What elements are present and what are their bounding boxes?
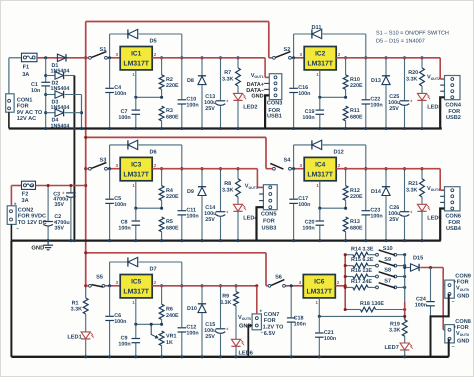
svg-text:220E: 220E xyxy=(166,83,179,89)
svg-text:LM317T: LM317T xyxy=(123,289,149,296)
svg-text:GND: GND xyxy=(31,245,44,252)
svg-text:35V: 35V xyxy=(54,202,64,208)
wire ladder bus xyxy=(404,255,406,302)
svg-text:+: + xyxy=(14,202,17,208)
svg-text:3.3K: 3.3K xyxy=(389,328,400,334)
capacitor C15 xyxy=(220,286,222,357)
svg-text:3.3K: 3.3K xyxy=(406,76,417,82)
resistor R20 xyxy=(421,58,423,68)
svg-text:1.2V TO: 1.2V TO xyxy=(263,325,284,331)
svg-text:S6: S6 xyxy=(275,275,282,281)
resistor R14 xyxy=(345,254,353,256)
svg-text:GND: GND xyxy=(251,94,263,100)
svg-text:D13: D13 xyxy=(371,78,381,84)
svg-text:220E: 220E xyxy=(350,194,363,200)
wire IC1 output rail xyxy=(152,57,265,59)
wire F2 out xyxy=(36,185,86,187)
capacitor C21 xyxy=(318,316,320,356)
resistor R7 xyxy=(237,58,239,68)
resistor R4 xyxy=(161,169,163,186)
wire ground rail row2 xyxy=(11,240,440,242)
connector CON5 xyxy=(263,185,277,210)
wire IC6 adj xyxy=(318,298,320,317)
svg-text:S5: S5 xyxy=(96,275,103,281)
wire IC2 output rail xyxy=(336,57,440,59)
svg-text:R14 3.3E: R14 3.3E xyxy=(351,246,374,252)
wire CON1 to fuse xyxy=(8,58,10,94)
diode D4 xyxy=(46,112,55,114)
svg-text:1K: 1K xyxy=(166,340,173,346)
svg-text:6.5V: 6.5V xyxy=(264,331,276,337)
wire xyxy=(107,168,120,170)
diode D10 xyxy=(201,286,203,304)
diode D1 xyxy=(57,54,66,61)
svg-text:S2: S2 xyxy=(283,47,290,53)
svg-text:100n: 100n xyxy=(302,115,314,121)
wire xyxy=(285,285,303,287)
resistor R8 xyxy=(237,169,239,179)
capacitor C12 xyxy=(181,286,183,357)
svg-text:FOR: FOR xyxy=(448,220,460,226)
connector CON4 xyxy=(445,76,461,100)
wire D2 cathode down xyxy=(73,76,75,241)
wire CON8 gnd xyxy=(448,339,450,357)
svg-text:100n: 100n xyxy=(370,103,382,109)
LED LED3 xyxy=(421,86,423,93)
diode D14 xyxy=(385,169,387,187)
potentiometer VR1 xyxy=(159,331,164,346)
svg-text:R21: R21 xyxy=(408,181,418,187)
wire IC6 out to ladder bus xyxy=(335,285,345,287)
svg-text:LM317T: LM317T xyxy=(307,172,333,179)
svg-text:R10: R10 xyxy=(350,77,360,83)
svg-text:FOR: FOR xyxy=(448,109,460,115)
wire D3 cathode down xyxy=(81,95,83,129)
svg-text:100n: 100n xyxy=(298,202,310,208)
capacitor C8 xyxy=(135,208,137,240)
switch S5 xyxy=(89,284,92,287)
capacitor C2 xyxy=(47,186,49,222)
resistor R18 xyxy=(345,309,360,311)
svg-text:680E: 680E xyxy=(350,225,363,231)
svg-text:LM317T: LM317T xyxy=(123,61,149,68)
svg-text:S3: S3 xyxy=(99,158,106,164)
svg-text:R5: R5 xyxy=(166,219,173,225)
svg-text:IC2: IC2 xyxy=(315,51,326,58)
wire CON9 gnd xyxy=(431,294,449,357)
svg-text:CON6: CON6 xyxy=(445,214,461,220)
switch S3 xyxy=(89,167,92,170)
svg-text:100n: 100n xyxy=(415,303,427,309)
capacitor C26 xyxy=(404,169,406,241)
svg-text:LED7: LED7 xyxy=(385,345,399,351)
svg-text:+: + xyxy=(226,99,229,104)
svg-text:D14: D14 xyxy=(371,189,381,195)
wire stub S6 xyxy=(266,285,268,287)
svg-text:680E: 680E xyxy=(350,114,363,120)
svg-text:LM317T: LM317T xyxy=(123,172,149,179)
wire row2 feed rail xyxy=(86,136,266,138)
svg-text:100n: 100n xyxy=(114,91,126,97)
wire adj xyxy=(345,200,347,208)
resistor R1 xyxy=(83,298,88,314)
switch S9 xyxy=(368,265,376,267)
op-amp/regulator IC6 xyxy=(303,275,335,298)
svg-text:680E: 680E xyxy=(166,225,179,231)
resistor R5 xyxy=(159,217,164,232)
svg-text:D11: D11 xyxy=(312,25,322,31)
svg-text:CON2: CON2 xyxy=(18,207,34,213)
wire D15 to CON9 xyxy=(420,267,443,269)
svg-text:CON7: CON7 xyxy=(264,312,280,318)
svg-text:D15: D15 xyxy=(413,255,423,261)
svg-text:100n: 100n xyxy=(114,202,126,208)
svg-text:VR1: VR1 xyxy=(166,334,177,340)
svg-text:R15 6.2E: R15 6.2E xyxy=(351,257,374,263)
capacitor C9 xyxy=(135,324,137,357)
svg-text:100n: 100n xyxy=(298,91,310,97)
wire main positive bus xyxy=(85,22,87,286)
capacitor C6 xyxy=(109,286,111,357)
op-amp/regulator IC3 xyxy=(120,157,152,180)
switch S1 xyxy=(89,56,92,59)
wire IC4 output rail xyxy=(336,168,440,170)
svg-text:S1: S1 xyxy=(99,47,106,53)
svg-text:100n: 100n xyxy=(302,226,314,232)
LED LED7 xyxy=(404,336,406,343)
svg-text:R6: R6 xyxy=(166,307,173,313)
resistor R21 xyxy=(421,169,423,179)
resistor R2 xyxy=(161,58,163,75)
svg-text:CON1: CON1 xyxy=(17,97,33,103)
svg-text:R4: R4 xyxy=(166,188,173,194)
svg-text:R17 24E: R17 24E xyxy=(351,279,372,285)
wire xyxy=(107,57,120,59)
switch S2 xyxy=(273,56,276,59)
svg-text:100n: 100n xyxy=(118,115,130,121)
svg-text:1N5404: 1N5404 xyxy=(51,123,70,129)
wire CON6 stubs xyxy=(440,195,444,197)
capacitor C4 xyxy=(109,58,111,129)
svg-text:F1: F1 xyxy=(23,65,30,71)
svg-text:100n: 100n xyxy=(186,331,198,337)
node DATA+ xyxy=(264,82,269,84)
LED LED5 xyxy=(421,197,423,204)
wire row3 feed rail xyxy=(86,252,266,254)
svg-text:CON4: CON4 xyxy=(445,103,461,109)
capacitor C10 xyxy=(181,58,183,129)
svg-text:GND: GND xyxy=(457,339,469,345)
LED LED4 xyxy=(237,197,239,204)
svg-text:R1: R1 xyxy=(72,300,79,306)
svg-text:CON3: CON3 xyxy=(267,100,283,106)
op-amp/regulator IC1 xyxy=(120,47,152,70)
svg-text:240E: 240E xyxy=(166,313,179,319)
svg-text:D8: D8 xyxy=(187,78,194,84)
svg-text:100n: 100n xyxy=(186,103,198,109)
svg-text:S7: S7 xyxy=(384,279,391,285)
wire IC5 output rail xyxy=(152,285,257,287)
svg-text:–: – xyxy=(452,344,455,350)
wire top positive rail xyxy=(86,21,269,23)
svg-text:FOR: FOR xyxy=(263,218,275,224)
diode D3 xyxy=(46,94,55,96)
svg-text:LM317T: LM317T xyxy=(306,289,332,296)
svg-text:25V: 25V xyxy=(205,106,215,112)
svg-text:LED2: LED2 xyxy=(243,105,257,111)
svg-text:D6: D6 xyxy=(150,150,157,156)
resistor R19 xyxy=(402,320,407,336)
diode D2 xyxy=(46,75,55,77)
wire CON4 stubs xyxy=(440,84,444,86)
svg-text:R11: R11 xyxy=(350,108,360,114)
svg-text:C1: C1 xyxy=(31,82,38,88)
svg-text:3.3K: 3.3K xyxy=(222,76,233,82)
capacitor C1 xyxy=(41,81,50,83)
fuse F1 xyxy=(22,53,38,62)
resistor R12 xyxy=(345,169,347,186)
wire CON5 stubs xyxy=(259,193,263,195)
svg-text:R8: R8 xyxy=(224,181,231,187)
node DATA- xyxy=(264,88,269,90)
switch S7 xyxy=(368,286,376,288)
svg-text:D5: D5 xyxy=(150,39,157,45)
svg-text:+: + xyxy=(410,210,413,215)
svg-text:220E: 220E xyxy=(166,194,179,200)
connector CON9 xyxy=(445,280,455,298)
svg-text:S1 – S10 = ON/OFF SWITCH: S1 – S10 = ON/OFF SWITCH xyxy=(376,31,449,37)
svg-text:R16 13E: R16 13E xyxy=(351,268,372,274)
svg-text:25V: 25V xyxy=(389,217,399,223)
diode D6 xyxy=(109,145,111,169)
wire ground rail row1 xyxy=(9,127,442,129)
svg-text:25V: 25V xyxy=(389,106,399,112)
svg-text:S8: S8 xyxy=(384,268,391,274)
svg-text:R18 130E: R18 130E xyxy=(360,301,384,307)
capacitor C14 xyxy=(220,169,222,241)
wire IC3 output rail xyxy=(152,168,257,170)
svg-text:S4: S4 xyxy=(283,158,291,164)
svg-text:100n: 100n xyxy=(118,341,130,347)
svg-text:R3: R3 xyxy=(166,108,173,114)
connector CON3 xyxy=(269,74,282,100)
svg-text:R20: R20 xyxy=(408,70,418,76)
svg-text:3A: 3A xyxy=(22,72,29,78)
wire CON2 minus xyxy=(10,224,12,240)
resistor R6 xyxy=(161,286,163,304)
svg-text:9V AC TO: 9V AC TO xyxy=(17,110,43,116)
svg-text:R13: R13 xyxy=(350,219,360,225)
svg-text:35V: 35V xyxy=(54,226,64,232)
wire left return xyxy=(10,241,12,357)
wire bus tail xyxy=(85,286,87,298)
wire CON6 gnd xyxy=(440,209,444,241)
wire stub S3 xyxy=(86,168,89,170)
svg-text:100n: 100n xyxy=(186,214,198,220)
capacitor C19 xyxy=(319,97,321,128)
svg-text:LED1: LED1 xyxy=(67,334,81,340)
svg-text:1N5404: 1N5404 xyxy=(51,86,70,92)
switch S8 xyxy=(368,276,376,278)
svg-text:D5 – D15 = 1N4007: D5 – D15 = 1N4007 xyxy=(376,39,425,45)
resistor R3 xyxy=(159,106,164,121)
svg-text:680E: 680E xyxy=(166,114,179,120)
svg-text:D12: D12 xyxy=(334,150,344,156)
svg-text:3A: 3A xyxy=(22,198,29,204)
svg-text:USB2: USB2 xyxy=(446,115,461,121)
svg-text:LED6: LED6 xyxy=(239,351,253,357)
diode D13 xyxy=(385,58,387,76)
LED LED6 xyxy=(235,306,237,339)
wire stub S1 xyxy=(86,57,89,59)
svg-text:R19: R19 xyxy=(390,321,400,327)
wire xyxy=(291,168,304,170)
svg-text:220E: 220E xyxy=(350,83,363,89)
svg-text:1N5404: 1N5404 xyxy=(51,105,70,111)
connector CON8 xyxy=(445,325,455,343)
wire adj xyxy=(161,200,163,208)
wire bridge left bus xyxy=(45,58,47,83)
LED LED2 xyxy=(237,86,239,93)
svg-text:100n: 100n xyxy=(324,336,336,342)
svg-text:100n: 100n xyxy=(118,226,130,232)
svg-text:IC4: IC4 xyxy=(315,162,326,169)
wire CON4 gnd xyxy=(440,97,444,128)
wire CON2 plus xyxy=(10,186,12,206)
svg-text:3.3K: 3.3K xyxy=(71,307,82,313)
svg-text:100n: 100n xyxy=(370,214,382,220)
svg-text:R12: R12 xyxy=(350,188,360,194)
svg-text:12V AC: 12V AC xyxy=(17,116,36,122)
capacitor C5 xyxy=(109,169,111,241)
wire stub S2 xyxy=(269,57,273,59)
svg-text:+: + xyxy=(410,99,413,104)
svg-text:USB4: USB4 xyxy=(446,226,462,232)
resistor R10 xyxy=(345,58,347,75)
svg-text:+: + xyxy=(226,327,229,332)
svg-text:S10: S10 xyxy=(383,246,393,252)
capacitor C16 xyxy=(293,58,295,129)
svg-text:USB3: USB3 xyxy=(262,225,277,231)
connector CON6 xyxy=(445,187,461,211)
svg-text:R7: R7 xyxy=(224,70,231,76)
svg-text:IC1: IC1 xyxy=(131,51,142,58)
svg-text:LM317T: LM317T xyxy=(307,61,333,68)
svg-text:IC6: IC6 xyxy=(314,279,325,286)
svg-text:S9: S9 xyxy=(384,257,391,263)
svg-text:10n: 10n xyxy=(31,88,40,94)
svg-text:D9: D9 xyxy=(187,189,194,195)
diode D15 xyxy=(405,267,411,269)
diode D7 xyxy=(109,262,111,286)
svg-text:FOR: FOR xyxy=(17,104,29,110)
LED LED1 xyxy=(85,314,87,332)
resistor R9 xyxy=(235,286,237,292)
wire fuse out xyxy=(37,57,86,59)
svg-text:+: + xyxy=(226,210,229,215)
svg-text:R9: R9 xyxy=(222,294,229,300)
svg-text:3.3K: 3.3K xyxy=(220,300,231,306)
svg-text:–: – xyxy=(452,299,455,305)
svg-text:D10: D10 xyxy=(187,306,197,312)
svg-text:+: + xyxy=(62,191,65,196)
wire CON5 gnd xyxy=(257,207,264,240)
op-amp/regulator IC4 xyxy=(304,157,336,180)
svg-text:3.3K: 3.3K xyxy=(406,187,417,193)
capacitor C25 xyxy=(404,58,406,129)
wire adj xyxy=(345,89,347,97)
capacitor C22 xyxy=(365,58,367,129)
diode D5 xyxy=(109,34,111,58)
op-amp/regulator IC2 xyxy=(304,47,336,70)
diode D8 xyxy=(201,58,203,76)
capacitor C7 xyxy=(135,97,137,128)
svg-text:+: + xyxy=(259,309,262,315)
capacitor C23 xyxy=(365,169,367,241)
diode D12 xyxy=(293,145,295,169)
diode D11 xyxy=(293,34,295,58)
svg-text:USB1: USB1 xyxy=(267,114,282,120)
fuse F2 xyxy=(11,185,21,187)
capacitor C18 xyxy=(290,286,292,357)
connector CON2 xyxy=(7,206,16,225)
connector CON1 xyxy=(6,94,14,112)
svg-text:GND: GND xyxy=(457,294,469,300)
wire ground rail row3 xyxy=(11,356,448,358)
resistor R16 xyxy=(345,276,353,278)
svg-text:100n: 100n xyxy=(294,321,306,327)
op-amp/regulator IC5 xyxy=(120,275,152,298)
resistor R17 xyxy=(345,286,353,288)
wire CON1 return xyxy=(8,112,10,128)
wire CON7 gnd xyxy=(248,326,252,357)
svg-text:IC3: IC3 xyxy=(131,162,142,169)
wire stub S4 xyxy=(266,168,273,170)
svg-text:–: – xyxy=(16,226,19,232)
wire adj xyxy=(161,89,163,97)
svg-text:R2: R2 xyxy=(166,77,173,83)
svg-text:F2: F2 xyxy=(22,191,29,197)
resistor R11 xyxy=(343,106,348,121)
switch S10 xyxy=(368,254,376,256)
capacitor C17 xyxy=(293,169,295,241)
wire xyxy=(105,285,120,287)
svg-text:IC5: IC5 xyxy=(131,279,142,286)
capacitor C11 xyxy=(181,169,183,241)
svg-text:D7: D7 xyxy=(150,267,157,273)
capacitor C13 xyxy=(220,58,222,129)
switch S6 xyxy=(268,284,271,287)
diode D9 xyxy=(201,169,203,187)
wire adj IC5 xyxy=(161,320,163,325)
svg-text:3.3K: 3.3K xyxy=(222,187,233,193)
svg-text:TO 12V DC: TO 12V DC xyxy=(18,220,47,226)
capacitor C3 xyxy=(70,186,72,193)
svg-text:25V: 25V xyxy=(205,217,215,223)
wire stub S5 xyxy=(86,285,89,287)
svg-text:25V: 25V xyxy=(205,334,215,340)
switch S4 xyxy=(273,167,276,170)
svg-text:FOR: FOR xyxy=(264,318,276,324)
wire xyxy=(291,57,304,59)
svg-text:100n: 100n xyxy=(114,319,126,325)
svg-text:FOR 9VDC: FOR 9VDC xyxy=(18,214,46,220)
resistor R15 xyxy=(345,265,353,267)
svg-text:CON5: CON5 xyxy=(261,212,277,218)
connector CON7 xyxy=(252,314,261,330)
resistor R13 xyxy=(343,217,348,232)
capacitor C20 xyxy=(319,208,321,240)
